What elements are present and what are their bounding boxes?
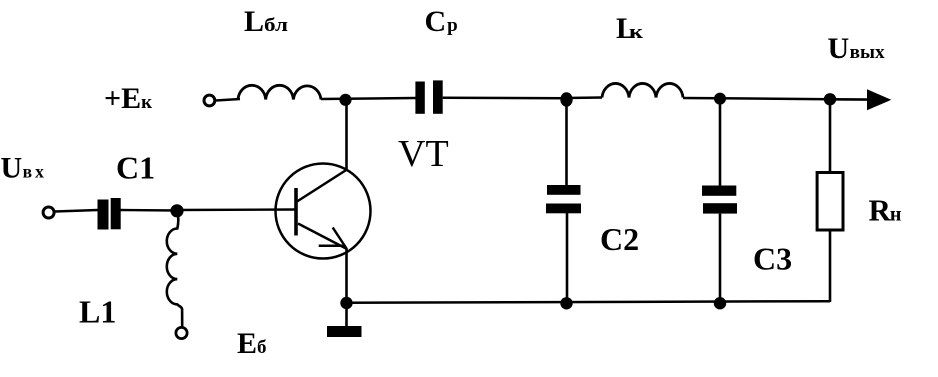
node B junction (base node) xyxy=(170,204,183,217)
inductor Lк xyxy=(602,83,683,97)
terminal at bottom of L1 xyxy=(176,327,187,338)
wire supply terminal to Lбл xyxy=(216,99,241,101)
inductor L1 xyxy=(167,212,182,328)
svg-text:C1: C1 xyxy=(116,150,155,186)
svg-text:L1: L1 xyxy=(79,294,116,330)
wire output node down to Rн xyxy=(829,99,832,173)
output arrowhead xyxy=(867,89,891,110)
wire C3 node to output node xyxy=(720,97,830,100)
svg-text:VT: VT xyxy=(398,133,449,175)
resistor Rн xyxy=(817,173,843,231)
capacitor Cр xyxy=(415,80,442,113)
wire Cр to node of C2 xyxy=(443,97,566,100)
wire C3 to ground rail xyxy=(719,214,722,303)
wire C2 to ground rail xyxy=(566,213,569,303)
ground symbol xyxy=(327,326,362,337)
supply terminal xyxy=(204,95,215,106)
wire C2 node to Lк xyxy=(566,96,602,99)
wire input terminal to C1 xyxy=(55,210,98,212)
junction C2 at ground rail xyxy=(560,297,572,309)
input terminal xyxy=(43,207,54,218)
node junction top of C3 xyxy=(714,93,726,105)
output node junction xyxy=(824,93,836,105)
wire node B to transistor base xyxy=(177,208,295,211)
inductor Lбл xyxy=(238,85,321,99)
node junction top of C2 xyxy=(560,92,572,106)
ground rail wire xyxy=(347,301,831,303)
wire Lбл to Cр xyxy=(321,98,416,99)
capacitor C3 xyxy=(702,186,737,214)
wire node down to C2 xyxy=(565,99,568,186)
transistor VT xyxy=(276,164,371,259)
wire emitter down to ground node xyxy=(345,248,348,303)
capacitor C1 xyxy=(98,198,121,230)
wire C1 to node B xyxy=(121,209,178,212)
capacitor C2 xyxy=(546,185,581,213)
ground stub xyxy=(345,303,348,327)
junction C3 at ground rail xyxy=(714,297,726,309)
wire node down to C3 xyxy=(719,99,722,186)
wire output node to arrow xyxy=(830,98,870,101)
svg-text:C2: C2 xyxy=(600,221,639,257)
node A junction (collector node) xyxy=(339,94,351,106)
emitter ground node junction xyxy=(340,297,352,309)
wire Lк to node of C3 xyxy=(683,97,720,100)
wire Rн to ground rail xyxy=(829,230,832,302)
wire node A down to transistor collector xyxy=(345,99,348,171)
svg-text:C3: C3 xyxy=(753,241,792,277)
